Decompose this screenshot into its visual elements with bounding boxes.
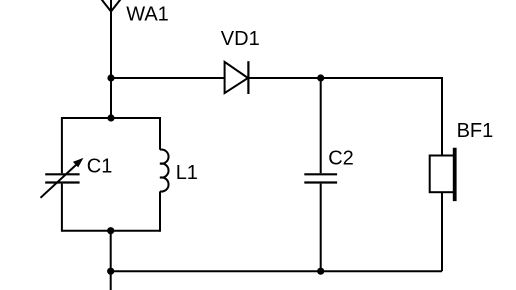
capacitor C1 (variable) [41,158,84,198]
node junction dot antenna/top wire [107,74,114,81]
antenna WA1 [100,0,123,118]
wire BF1 branch lower [441,192,443,271]
node junction dot C2 bottom [317,268,324,275]
wire tank right upper segment [159,117,161,150]
wire tank bottom to ground rail [110,231,112,290]
inductor L1 [160,150,169,192]
diode VD1 [225,61,249,94]
wire tank right lower segment [159,191,161,231]
earphone BF1 [430,148,455,201]
wire tank left lower segment [61,184,63,232]
wire tank left upper segment [61,117,63,173]
node junction dot tank bottom [107,227,114,234]
wire BF1 branch upper [441,77,443,156]
wire C2 branch lower [320,184,322,272]
wire C2 branch upper [320,78,322,173]
wire top middle (diode cathode to BF1 branch) [248,77,442,79]
wire tank bottom edge [62,230,161,232]
capacitor C2 [304,174,337,182]
svg-text:WA1: WA1 [126,3,169,25]
node junction dot bottom rail left [107,268,114,275]
svg-text:VD1: VD1 [221,28,260,50]
wire top left (node to diode anode) [111,77,225,79]
wire tank top edge [62,117,161,119]
svg-text:BF1: BF1 [457,120,494,142]
node junction dot C2 top [317,74,324,81]
svg-text:C2: C2 [328,148,354,170]
svg-text:L1: L1 [176,162,198,184]
svg-text:C1: C1 [87,156,113,178]
node junction dot tank top [107,114,114,121]
wire bottom rail [111,270,442,272]
